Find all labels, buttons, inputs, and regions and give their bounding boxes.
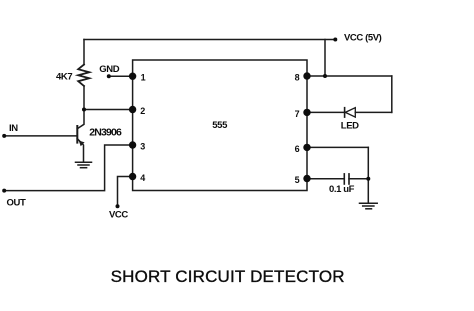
pin 8 dot: [303, 72, 310, 79]
pin 2 dot: [129, 106, 136, 113]
junction VCC drop: [323, 74, 327, 78]
IC U1 555 body: [133, 60, 307, 191]
svg-text:7: 7: [295, 109, 300, 119]
pin 5 dot: [303, 175, 310, 182]
svg-text:GND: GND: [99, 64, 119, 75]
pin 3 dot: [129, 141, 136, 148]
capacitor C1 0.1uF: [344, 174, 349, 184]
svg-text:8: 8: [295, 73, 300, 83]
node IN terminal: [2, 134, 6, 138]
junction capacitor/ground: [366, 177, 370, 181]
wire collector vertical: [77, 110, 84, 129]
svg-text:2N3906: 2N3906: [89, 127, 122, 139]
resistor R1 4K7: [78, 65, 89, 87]
pin 1 dot: [129, 73, 136, 80]
svg-text:IN: IN: [9, 123, 18, 134]
wire pin 8 to right: [307, 75, 392, 77]
svg-text:5: 5: [295, 175, 300, 185]
transistor Q1 2N3906: [76, 126, 78, 143]
pin 6 dot: [303, 144, 310, 151]
node GND terminal: [107, 74, 111, 78]
wire loop to diode anode: [355, 111, 392, 113]
node VCC terminal (pin4): [116, 204, 120, 208]
svg-text:555: 555: [212, 120, 228, 131]
wire OUT / pin 3: [4, 145, 132, 191]
wire junction to ground: [367, 179, 369, 203]
wire junction to pin 2: [84, 109, 133, 111]
pin 7 dot: [303, 109, 310, 116]
wire GND stub to pin 1: [109, 75, 133, 77]
ground (capacitor): [360, 203, 378, 209]
svg-text:LED: LED: [341, 121, 359, 132]
svg-text:1: 1: [141, 73, 146, 83]
node OUT terminal: [2, 189, 6, 193]
pin 4 dot: [129, 173, 136, 180]
svg-text:6: 6: [295, 144, 300, 154]
diode LED D1: [345, 108, 355, 117]
wire drop to cap junction: [367, 147, 369, 178]
svg-text:2: 2: [140, 106, 145, 116]
svg-text:0.1 uF: 0.1 uF: [329, 184, 355, 195]
wire diode cathode to pin 7: [307, 111, 345, 113]
svg-text:3: 3: [140, 142, 145, 152]
wire capacitor to junction: [349, 178, 368, 180]
junction collector/resistor: [82, 108, 86, 112]
svg-text:4K7: 4K7: [56, 71, 72, 82]
wire right loop down: [391, 76, 393, 112]
wire VCC top rail: [84, 39, 335, 41]
wire pin 5 to capacitor: [307, 178, 344, 180]
wire resistor bottom to junction: [83, 86, 85, 110]
node VCC terminal (rail): [333, 38, 337, 42]
svg-text:4: 4: [140, 173, 145, 183]
ground (transistor emitter): [76, 162, 92, 167]
svg-text:OUT: OUT: [7, 197, 26, 208]
svg-text:VCC (5V): VCC (5V): [344, 33, 382, 44]
svg-text:VCC: VCC: [109, 209, 128, 220]
svg-text:SHORT CIRCUIT DETECTOR: SHORT CIRCUIT DETECTOR: [111, 267, 345, 286]
wire pin 4 to VCC stub: [118, 177, 133, 207]
wire IN to base: [4, 135, 77, 137]
wire rail to resistor top: [83, 40, 85, 65]
wire pin 6 to right: [307, 146, 368, 148]
wire VCC rail drop to pin 8: [324, 40, 326, 77]
